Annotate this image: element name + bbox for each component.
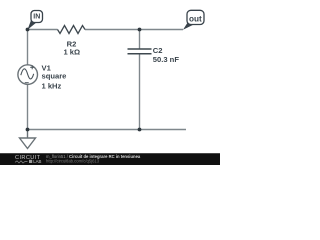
- voltage source V1 frequency label 1 kHz: [42, 81, 62, 90]
- svg-text:1 kHz: 1 kHz: [42, 81, 62, 90]
- wire: bottom horizontal rail: [28, 129, 187, 131]
- node A junction dot (IN node): [26, 28, 30, 32]
- footer attribution url line 2: [46, 159, 100, 164]
- wire: capacitor branch vertical upper: [139, 30, 141, 49]
- node flag IN box: [31, 11, 43, 23]
- svg-text:1 kΩ: 1 kΩ: [63, 48, 80, 57]
- footer watermark bar: [0, 153, 220, 165]
- node junction dot bottom of capacitor: [138, 128, 142, 132]
- capacitor C2 name label: [153, 46, 163, 55]
- resistor R2: [58, 26, 86, 34]
- node junction dot top of capacitor: [138, 28, 142, 32]
- svg-text:http://circuitlab.com/c/q5j613: http://circuitlab.com/c/q5j613: [46, 159, 100, 164]
- wire: left vertical from node A through V1 to bottom node: [27, 30, 29, 130]
- voltage source V1 type label square: [42, 71, 67, 80]
- voltage source V1 name label: [42, 63, 52, 72]
- svg-text:IN: IN: [33, 14, 40, 21]
- resistor R2 name label: [67, 39, 77, 48]
- capacitor C2: [128, 49, 152, 54]
- node flag IN pointer: [28, 20, 38, 30]
- svg-text:out: out: [189, 14, 202, 23]
- node junction dot bottom left (ground node): [26, 128, 30, 132]
- node flag out box: [187, 10, 204, 24]
- footer CircuitLab logo: [15, 155, 42, 164]
- svg-text:LAB: LAB: [33, 159, 41, 164]
- footer attribution text line 1: [46, 154, 141, 159]
- voltage source V1 (square wave source): [18, 65, 38, 85]
- capacitor C2 value label 50.3 nF: [153, 55, 180, 64]
- svg-text:50.3 nF: 50.3 nF: [153, 55, 180, 64]
- svg-text:square: square: [42, 71, 67, 80]
- node flag out pointer: [183, 23, 194, 30]
- svg-text:C2: C2: [153, 46, 163, 55]
- ground: [20, 130, 36, 149]
- resistor R2 value label 1 kOhm: [63, 48, 80, 57]
- wire: top horizontal from node A to resistor: [28, 29, 58, 31]
- wire: top horizontal from resistor to out flag: [85, 29, 183, 31]
- wire: capacitor branch vertical lower: [139, 54, 141, 130]
